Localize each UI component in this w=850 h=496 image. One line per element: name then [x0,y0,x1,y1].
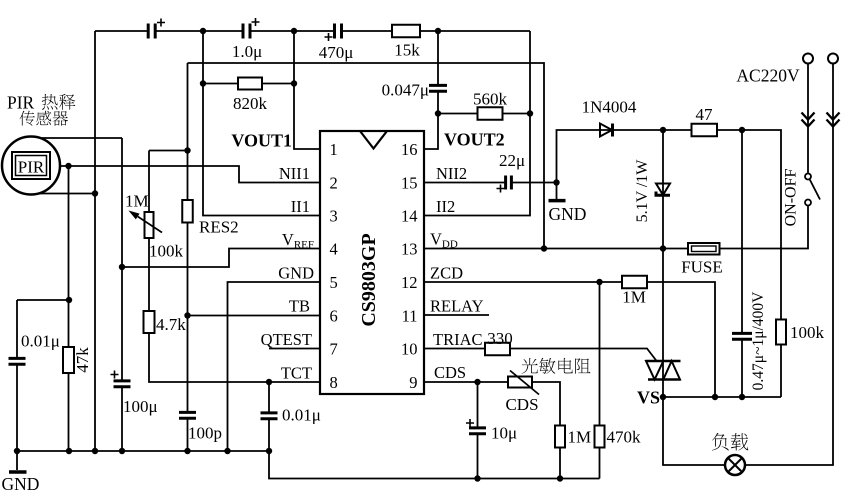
zener diode VD 5.1V [656,184,670,196]
svg-text:AC220V: AC220V [736,66,800,86]
wire x530 to II2 pin 14 [424,31,530,216]
svg-text:II1: II1 [291,197,310,216]
label VREF [282,230,314,251]
svg-text:NII2: NII2 [436,164,467,183]
wire 0.01u link [17,299,69,301]
switch ON-OFF [805,174,820,206]
svg-text:ZCD: ZCD [430,264,463,283]
label II2 [436,197,455,216]
svg-text:560k: 560k [473,90,508,109]
wire pot-4.7k-TCT [149,151,320,383]
svg-text:CDS: CDS [434,363,466,382]
label FUSE [681,258,723,277]
svg-text:100μ: 100μ [123,397,158,416]
wire 10u branch [477,382,479,479]
wire x122 branch [121,138,123,451]
svg-text:14: 14 [401,207,418,226]
label 470k [607,428,642,447]
svg-text:5.1V /1W: 5.1V /1W [634,159,651,223]
label CDS [505,395,538,414]
label TRIAC [433,330,483,349]
svg-text:0.47μ~1μ/400V: 0.47μ~1μ/400V [750,291,767,390]
wire zener-triac-lamp [663,64,833,466]
wire TRIAC gate line [424,349,657,362]
wire TB line [188,315,321,317]
resistor R8 1M bottom [555,426,565,448]
capacitor C5 22u [497,176,512,193]
svg-text:0.01μ: 0.01μ [282,406,321,425]
arrow chevrons left [802,113,815,127]
resistor R5 1M [622,276,647,289]
svg-text:FUSE: FUSE [681,258,723,277]
triac VS [646,361,681,380]
pin numbers left 1-8 [330,140,338,392]
svg-text:GND: GND [2,474,40,494]
label chuanganqi [19,111,68,126]
capacitor C6 0.47u-1u/400V [732,333,752,339]
svg-text:VOUT2: VOUT2 [444,130,505,150]
label VDD [430,230,458,251]
label 100u [123,397,158,416]
photoresistor CDS [508,371,539,395]
wire 560k link [438,113,530,115]
label II1 [291,197,310,216]
capacitor C7 10u [466,419,486,434]
svg-text:100k: 100k [790,323,825,342]
resistor R4 47 [692,124,718,137]
capacitor C11 0.01u right [261,413,278,419]
label fuzai [712,433,748,451]
ground right GND [549,183,587,225]
wire PIR top branch [41,137,122,139]
wire top supply rail [95,30,530,32]
wire pot top link [149,150,188,152]
label RELAY [430,297,484,316]
svg-text:2: 2 [330,174,338,193]
label 4.7k [156,315,186,334]
label CS9803GP [358,233,380,326]
svg-text:15k: 15k [394,41,420,60]
svg-text:4: 4 [330,240,338,259]
svg-text:1M: 1M [125,192,149,211]
label TCT [281,364,312,383]
svg-text:22μ: 22μ [499,151,525,170]
svg-text:1: 1 [330,140,338,159]
svg-text:8: 8 [330,373,338,392]
wire 0.01u branch x17 [16,300,18,451]
wire RES2 rail x187 [187,63,189,451]
svg-text:VS: VS [637,388,660,408]
label guangmindianzu [522,358,591,374]
wire RELAY stub [424,314,489,316]
label NII1 [279,164,310,183]
svg-text:PIR: PIR [7,93,35,113]
label 0.01u left [21,332,60,351]
svg-text:NII1: NII1 [279,164,310,183]
pin numbers right 16-9 [401,140,418,392]
svg-text:TRIAC: TRIAC [433,330,483,349]
label 5.1V/1W [634,159,651,223]
label 100k pot [149,242,184,261]
label VOUT1 [231,131,292,151]
svg-text:47k: 47k [73,347,92,373]
label PIR reshi [7,93,75,113]
resistor R9 470k [595,426,605,448]
svg-text:820k: 820k [233,94,268,113]
wire second rail y63 [188,63,545,249]
label GND pin5 [278,264,314,283]
svg-text:100p: 100p [188,424,222,443]
op-amp U1 CS9803GP body [320,131,424,394]
resistor R2 820k [238,78,262,90]
ground bottom left GND [2,451,40,494]
svg-text:0.01μ: 0.01μ [21,332,60,351]
svg-text:1M: 1M [622,288,646,307]
svg-text:13: 13 [401,240,418,259]
svg-text:6: 6 [330,307,338,326]
svg-text:470μ: 470μ [319,43,354,62]
label RES2 [199,218,239,237]
svg-text:1N4004: 1N4004 [582,98,637,117]
svg-text:ON-OFF: ON-OFF [783,169,800,227]
wire diode rail [557,130,782,397]
label AC220V [736,66,800,86]
svg-text:3: 3 [330,207,338,226]
wire 0.047u branch to VOUT2 [424,31,438,149]
terminal AC left [803,54,813,64]
label TB [289,297,310,316]
label 100k right [790,323,825,342]
wire GND pin5 line [228,282,321,451]
svg-text:4.7k: 4.7k [156,315,186,334]
label 15k [394,41,420,60]
label 0.01u right [282,406,321,425]
label 470u [319,43,354,62]
wire 47k branch x68 [68,166,70,451]
svg-text:GND: GND [278,264,314,283]
wire left rail x95 [94,31,96,451]
wire 820k branch [203,31,320,216]
resistor R10 4.7k [144,311,155,333]
label 560k [473,90,508,109]
wire 820k link [203,83,294,85]
wire 470k branch [599,282,601,479]
label 47 [696,105,714,124]
resistor R11 47k [63,347,74,373]
label 1N4004 [582,98,637,117]
wire bottom mid rail [269,451,600,479]
potentiometer RP 1M/100k [129,211,163,239]
svg-text:7: 7 [330,340,338,359]
svg-text:RELAY: RELAY [430,297,484,316]
capacitor C9 100u [111,371,131,387]
svg-text:TB: TB [289,297,310,316]
wire VREF line [122,249,320,268]
svg-text:9: 9 [409,373,417,392]
capacitor C1 electrolytic [148,19,165,39]
svg-text:PIR: PIR [18,158,45,177]
label 1M bottom [568,428,592,447]
wire 0.47u branch x742 [741,130,743,397]
terminal AC right [828,54,838,64]
svg-text:12: 12 [401,273,418,292]
label NII2 [436,164,467,183]
diode D1 1N4004 [600,124,613,137]
svg-text:100k: 100k [149,242,184,261]
svg-text:VOUT1: VOUT1 [231,131,292,151]
resistor R1 15k [392,25,420,38]
arrow chevrons right [827,113,840,127]
svg-text:15: 15 [401,174,418,193]
label 47k [73,347,92,373]
label 1M zcd [622,288,646,307]
svg-text:5: 5 [330,273,338,292]
label 0.047u [382,81,429,100]
label CDS pin9 [434,363,466,382]
resistor R7 100k right [776,320,786,345]
capacitor C3 470u [325,24,342,42]
label ON-OFF [783,169,800,227]
label ZCD [430,264,463,283]
label 100p [188,424,222,443]
label 330 [487,329,513,348]
label QTEST [261,330,312,349]
svg-text:1M: 1M [568,428,592,447]
svg-text:TCT: TCT [281,364,312,383]
label VOUT2 [444,130,505,150]
wire ZCD line [424,282,715,397]
wire VOUT1 branch x294 [294,31,320,149]
pir sensor PIR [2,137,60,195]
svg-text:QTEST: QTEST [261,330,312,349]
svg-text:RES2: RES2 [199,218,239,237]
resistor RES2 [182,200,193,223]
label 10u [491,424,517,443]
label 1M pot [125,192,149,211]
label VS [637,388,660,408]
wire NII1 line [59,166,320,183]
svg-text:1.0μ: 1.0μ [232,42,262,61]
label 1.0u [232,42,262,61]
capacitor C2 1.0u [243,18,260,39]
svg-text:CS9803GP: CS9803GP [358,233,380,326]
svg-text:0.047μ: 0.047μ [382,81,429,100]
wire VDD line to switch [424,206,808,249]
wire x269 TCT branch [268,382,270,451]
svg-text:GND: GND [549,204,587,224]
svg-text:11: 11 [402,307,418,326]
wire QTEST stub [269,348,320,350]
svg-text:10μ: 10μ [491,424,517,443]
svg-text:330: 330 [487,329,513,348]
wire PIR bottom branch [40,193,95,195]
resistor R3 560k [478,107,503,120]
wire CDS line [424,382,560,479]
capacitor C4 0.047u [429,85,447,91]
wire VS bottom line [663,396,781,398]
wire NII2 to 22u [424,182,557,184]
wire bottom ground rail [17,450,269,452]
svg-text:10: 10 [401,340,418,359]
wire AC left line [807,64,809,174]
svg-text:47: 47 [696,105,714,124]
capacitor C8 0.01u left [9,358,26,364]
lamp load [725,455,745,475]
svg-text:II2: II2 [436,197,455,216]
svg-text:CDS: CDS [505,395,538,414]
capacitor C10 100p [179,412,196,418]
label 22u [499,151,525,170]
label 0.47u-1u/400V [750,291,767,390]
svg-text:470k: 470k [607,428,642,447]
resistor R6 330 [485,343,510,356]
label 820k [233,94,268,113]
fuse FUSE [688,243,720,255]
svg-text:16: 16 [401,140,418,159]
